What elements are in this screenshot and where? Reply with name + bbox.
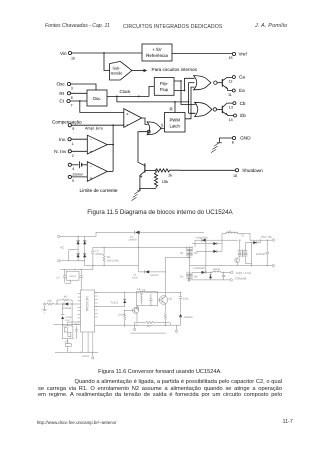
wire T2 taps bbox=[240, 240, 252, 263]
node Qbar junction bbox=[184, 90, 186, 92]
svg-text:Rt: Rt bbox=[59, 91, 64, 96]
wire primary bottom link bbox=[165, 257, 191, 258]
diode 5V rail bbox=[246, 240, 261, 244]
svg-text:COMUM: COMUM bbox=[235, 277, 247, 281]
snubber network box bbox=[136, 289, 157, 306]
or gate S input bbox=[147, 122, 161, 135]
oscillator box Osc bbox=[87, 90, 107, 106]
svg-text:470: 470 bbox=[147, 325, 152, 328]
svg-text:GND: GND bbox=[240, 136, 251, 141]
terminal Vin pin 15 bbox=[60, 51, 75, 61]
nor gate A bbox=[194, 76, 217, 90]
wire to shutdown terminal bbox=[180, 169, 235, 171]
wire common rail bbox=[190, 265, 272, 267]
wire Ct to osc box bbox=[70, 100, 87, 102]
svg-text:18k 1/2W: 18k 1/2W bbox=[107, 259, 119, 262]
svg-text:11: 11 bbox=[228, 93, 232, 97]
wire bridge mid bbox=[69, 250, 78, 261]
node compensation junction bbox=[112, 124, 114, 126]
pin stubs right bbox=[95, 293, 98, 318]
inductor L2 bbox=[212, 271, 230, 272]
wire emitter to resistor bottom bbox=[140, 188, 156, 190]
svg-text:2: 2 bbox=[72, 154, 74, 158]
svg-text:13: 13 bbox=[229, 105, 233, 109]
resistor 2k2 bbox=[118, 310, 126, 327]
diode bridge D leg1 bottom bbox=[77, 254, 80, 258]
enclosure bottom line bbox=[131, 332, 167, 334]
terminal comum bbox=[230, 279, 232, 281]
wire aux vertical right bbox=[251, 243, 253, 266]
wire clock line bbox=[107, 89, 149, 96]
divider box bbox=[62, 322, 80, 339]
regulator box +5V Referencia bbox=[142, 44, 172, 61]
pin stubs left bbox=[78, 294, 81, 322]
terminal snubber bbox=[137, 306, 139, 310]
svg-text:Clock: Clock bbox=[120, 89, 132, 94]
resistor R1 bbox=[103, 247, 119, 266]
diode 12V freewheel bbox=[209, 272, 212, 280]
wire Q3 collector bbox=[136, 306, 138, 323]
footer left bbox=[37, 421, 117, 425]
terminal pin 5 bbox=[68, 175, 74, 183]
wire clock lower branch bbox=[117, 96, 189, 102]
header left bbox=[45, 24, 110, 29]
wire arrow para circuitos internos bbox=[132, 67, 198, 72]
wire pin 5 input bbox=[71, 176, 87, 178]
svg-text:78L15: 78L15 bbox=[69, 275, 76, 278]
pwm latch box bbox=[165, 113, 186, 133]
wire inv input bbox=[71, 138, 87, 140]
svg-text:3: 3 bbox=[71, 87, 73, 91]
svg-text:N1: N1 bbox=[180, 252, 184, 255]
terminal Vref pin 16 bbox=[229, 52, 248, 60]
svg-text:100nF: 100nF bbox=[118, 313, 126, 316]
node common junctions bbox=[251, 265, 252, 266]
ground rail bottom bbox=[55, 351, 98, 353]
svg-text:Ca: Ca bbox=[239, 75, 245, 80]
terminal Cb pin 13 bbox=[229, 101, 246, 110]
svg-text:100uF: 100uF bbox=[95, 253, 103, 256]
regulator box 78L15 bbox=[65, 271, 79, 283]
wire latch bus to gate B bbox=[191, 112, 196, 114]
wire secondary rect 1 bbox=[192, 234, 222, 246]
svg-text:6: 6 bbox=[71, 96, 73, 100]
terminal AC bottom bbox=[58, 260, 60, 262]
wire Q2 emitter bbox=[164, 304, 166, 314]
inductor L1 bbox=[222, 230, 250, 240]
svg-text:1: 1 bbox=[72, 142, 74, 146]
transistor shutdown bbox=[140, 163, 156, 188]
diode 12V rect bbox=[193, 268, 221, 274]
terminal bottom bbox=[92, 352, 94, 359]
node base junction bbox=[155, 170, 157, 172]
ground below shutdown transistor bbox=[131, 189, 140, 201]
svg-text:10: 10 bbox=[233, 174, 237, 178]
wire blanking to gate A bbox=[189, 82, 195, 84]
wire flip-flop output Q bbox=[174, 81, 196, 105]
feedback vertical TL431 bbox=[111, 292, 127, 307]
svg-text:1N4007: 1N4007 bbox=[129, 239, 139, 242]
svg-text:Vref: Vref bbox=[239, 52, 248, 57]
wire blanking to gate B bbox=[189, 112, 196, 114]
resistor 27k below divider bbox=[64, 339, 71, 353]
node Vin junction bbox=[103, 52, 105, 54]
diode clamp 1N4936 bbox=[177, 314, 194, 325]
svg-text:+12V / 1.5A: +12V / 1.5A bbox=[235, 271, 251, 275]
wire non-inv input bbox=[71, 150, 87, 152]
svg-text:Cb: Cb bbox=[240, 101, 246, 106]
svg-text:100n: 100n bbox=[74, 323, 80, 326]
terminal pin 4 bbox=[68, 163, 74, 171]
header center bbox=[123, 25, 222, 30]
svg-text:Flip-: Flip- bbox=[160, 81, 169, 86]
op-amp current limit bbox=[87, 162, 107, 182]
svg-text:+: + bbox=[126, 111, 129, 116]
wire clock to flip-flop bbox=[149, 86, 154, 96]
wire aux supply rail bbox=[60, 265, 93, 270]
wire Q2 collector bbox=[164, 258, 166, 297]
wire comparator output to or gate bbox=[142, 118, 148, 124]
node Q junction bbox=[180, 80, 182, 82]
svg-text:7: 7 bbox=[71, 104, 73, 108]
node bridge top bbox=[77, 236, 78, 237]
wire resistor 470 row bbox=[134, 321, 171, 330]
wire amp outputs join vertical bbox=[112, 125, 114, 171]
terminal AC top bbox=[58, 235, 60, 237]
node error amp output junction bbox=[112, 144, 114, 146]
svg-text:Referência: Referência bbox=[146, 53, 168, 58]
svg-text:1k: 1k bbox=[168, 173, 172, 178]
svg-text:Q2: Q2 bbox=[169, 298, 173, 301]
wire secondary rect 2 bbox=[196, 244, 222, 253]
wire reference box to Vref bbox=[172, 53, 232, 55]
resistor 1k bbox=[156, 169, 181, 178]
svg-text:Limite de corrente: Limite de corrente bbox=[80, 188, 118, 194]
wire T1 lower winding links bbox=[187, 272, 194, 280]
wire HV vertical bbox=[137, 232, 139, 272]
capacitor C1 bbox=[91, 247, 103, 265]
svg-text:5: 5 bbox=[72, 179, 74, 183]
terminal +5V bbox=[272, 239, 274, 241]
terminal Ca pin 12 bbox=[228, 75, 245, 84]
wire bottom rail primary bbox=[95, 324, 177, 326]
pin bottom leads bbox=[82, 332, 93, 352]
svg-text:200mV: 200mV bbox=[72, 173, 83, 177]
wire bridge legs bbox=[78, 236, 85, 260]
svg-text:AC: AC bbox=[60, 246, 65, 250]
wire IC to TL431 bbox=[95, 306, 125, 308]
wire flip-flop output Qbar bbox=[174, 78, 195, 90]
diode demag UF5404 bbox=[132, 270, 166, 279]
svg-text:Osc.: Osc. bbox=[57, 82, 66, 87]
terminal Inv pin 1 bbox=[59, 137, 74, 146]
svg-text:+5V / 3A: +5V / 3A bbox=[260, 235, 272, 239]
svg-text:Ct: Ct bbox=[59, 99, 64, 104]
svg-text:C2: C2 bbox=[56, 277, 60, 280]
wire or gate to latch S bbox=[160, 122, 164, 128]
svg-text:100uF: 100uF bbox=[82, 355, 90, 358]
nor gate B bbox=[195, 102, 217, 116]
wire pin 4 to offset battery bbox=[71, 164, 78, 166]
svg-text:Vin: Vin bbox=[60, 51, 67, 56]
svg-text:Osc.: Osc. bbox=[93, 96, 102, 101]
terminal Compensacao pin 9 bbox=[52, 119, 82, 131]
transformer T1 core bbox=[189, 246, 191, 281]
wire Vin to reference box bbox=[72, 52, 142, 54]
resistor emitter bbox=[164, 313, 166, 326]
footer right bbox=[283, 420, 293, 425]
wire T1 bottom to Q2 bbox=[187, 278, 189, 280]
svg-text:4: 4 bbox=[72, 167, 74, 171]
diode bridge D leg2 bottom bbox=[83, 254, 86, 258]
svg-text:Inv.: Inv. bbox=[59, 137, 66, 142]
capacitor 220uF aux bbox=[56, 303, 73, 324]
svg-text:UF5404: UF5404 bbox=[150, 274, 159, 277]
wire DC- rail bbox=[85, 261, 139, 266]
wire to D1 rail bbox=[96, 232, 134, 236]
terminal GND pin 8 bbox=[232, 136, 251, 145]
capacitor 1000uF output bbox=[256, 240, 269, 265]
wire oscillator output pin 3 bbox=[71, 84, 96, 90]
svg-text:N2: N2 bbox=[180, 276, 184, 279]
svg-text:14: 14 bbox=[229, 118, 233, 122]
capacitor 1uF bbox=[137, 288, 143, 294]
wire comum 12V bbox=[190, 279, 230, 281]
svg-text:UC1524A: UC1524A bbox=[85, 297, 89, 312]
svg-text:1N4936: 1N4936 bbox=[184, 316, 194, 319]
svg-text:10nF: 10nF bbox=[183, 297, 189, 300]
svg-text:27k: 27k bbox=[64, 341, 69, 344]
svg-text:S: S bbox=[161, 122, 164, 127]
svg-text:-: - bbox=[90, 138, 92, 143]
diode bridge D leg1 top bbox=[77, 241, 80, 245]
svg-text:1uF: 1uF bbox=[137, 288, 142, 291]
svg-text:tensão: tensão bbox=[111, 70, 123, 75]
svg-text:8: 8 bbox=[232, 141, 234, 145]
terminal common 5V bbox=[272, 264, 274, 266]
wire demag rail VD(SNB) bbox=[195, 236, 238, 247]
diode bridge D leg2 top bbox=[83, 241, 86, 245]
transistor Q2 power bbox=[158, 296, 173, 305]
svg-text:Compensação: Compensação bbox=[52, 119, 82, 124]
node 5V junctions bbox=[260, 240, 261, 241]
svg-text:N. Inv: N. Inv bbox=[54, 149, 67, 154]
terminal Rt pin 6 bbox=[59, 91, 72, 100]
battery 200mV offset bbox=[72, 161, 87, 176]
terminal Ea pin 11 bbox=[228, 88, 245, 97]
wire VD(SNB) riser bbox=[205, 240, 206, 274]
svg-text:3,3nF: 3,3nF bbox=[132, 277, 139, 280]
svg-text:Flop: Flop bbox=[160, 87, 169, 92]
wire latch output bus bbox=[185, 87, 195, 119]
svg-text:PWM: PWM bbox=[169, 117, 180, 122]
wire T1 top taps bbox=[187, 247, 193, 249]
transformer T2 bbox=[238, 234, 247, 257]
svg-text:Shutdown: Shutdown bbox=[242, 168, 263, 173]
node blanking junction bbox=[188, 101, 190, 103]
terminal Shutdown pin 10 bbox=[233, 168, 263, 178]
svg-text:12: 12 bbox=[228, 79, 232, 83]
svg-text:+VD(SNB): +VD(SNB) bbox=[193, 267, 205, 270]
svg-text:+: + bbox=[90, 149, 93, 154]
svg-text:9: 9 bbox=[72, 127, 74, 131]
node clock junction 2 bbox=[138, 96, 140, 98]
comparator PWM bbox=[124, 109, 142, 128]
op-amp error amplifier bbox=[87, 135, 107, 154]
wire Ct ramp to comparator bbox=[80, 101, 124, 112]
wire error amp output bbox=[107, 144, 113, 146]
resistor 1k8 bbox=[46, 300, 57, 306]
transformer T1 winding N1 bbox=[186, 249, 192, 256]
ground symbol pin 8 bbox=[211, 143, 222, 153]
capacitor 12V output bbox=[222, 272, 225, 280]
svg-text:25V: 25V bbox=[65, 319, 70, 322]
node clock junction 1 bbox=[116, 96, 118, 98]
wire AC top bbox=[60, 235, 96, 237]
resistor 10k bbox=[154, 171, 168, 188]
svg-text:16: 16 bbox=[229, 56, 233, 60]
wire Vcc rail bbox=[95, 292, 181, 294]
diode aux 1N4148 bbox=[57, 302, 81, 310]
svg-text:Latch: Latch bbox=[169, 124, 180, 129]
svg-text:R: R bbox=[170, 107, 173, 112]
wire Rt to osc box bbox=[71, 92, 87, 94]
svg-text:1k8: 1k8 bbox=[47, 300, 52, 303]
svg-text:-: - bbox=[90, 165, 92, 170]
wire +5V rail bbox=[250, 239, 272, 241]
node emitter junction bbox=[139, 188, 141, 190]
caption figure 11.6 bbox=[0, 370, 320, 376]
capacitor Vin decouple bbox=[80, 269, 83, 290]
terminal Osc pin 3 bbox=[57, 82, 73, 91]
transformer T1 winding N4 bbox=[186, 273, 192, 278]
snubber vertical 10nF bbox=[179, 292, 189, 313]
transistor T2 driver bbox=[235, 258, 240, 266]
IC U1 UC1524A bbox=[81, 290, 95, 332]
node Ct ramp junction bbox=[79, 100, 81, 102]
header right bbox=[255, 24, 287, 29]
svg-text:4k7: 4k7 bbox=[64, 296, 69, 299]
wire D1 to snubber rail bbox=[140, 231, 204, 233]
flip-flop box bbox=[154, 78, 174, 96]
diode D1 bbox=[129, 231, 140, 242]
svg-text:1N4148: 1N4148 bbox=[62, 307, 72, 310]
svg-text:N3: N3 bbox=[194, 252, 198, 255]
paragraph bbox=[38, 379, 282, 399]
terminal Eb pin 14 bbox=[229, 113, 247, 122]
wire aux ground rail bbox=[53, 304, 80, 325]
wire GND pin bbox=[219, 138, 232, 143]
transistor output A bbox=[217, 77, 232, 90]
node bottom rail bbox=[124, 325, 125, 326]
node latch bus junction bbox=[190, 112, 192, 114]
wire latch reset R bbox=[170, 102, 176, 113]
terminal NInv pin 2 bbox=[54, 149, 74, 158]
svg-text:N4: N4 bbox=[194, 276, 198, 279]
svg-text:C8: C8 bbox=[142, 289, 146, 292]
svg-text:Ea: Ea bbox=[239, 88, 245, 93]
wire clock blanking bus bbox=[188, 83, 190, 114]
svg-text:10k: 10k bbox=[162, 179, 168, 184]
resistor 4k7 bbox=[57, 296, 72, 304]
svg-text:Ampl. Erro: Ampl. Erro bbox=[85, 127, 103, 131]
transistor output B bbox=[217, 103, 234, 115]
svg-text:Eb: Eb bbox=[240, 113, 246, 118]
svg-text:+ 5V: + 5V bbox=[152, 47, 161, 52]
capacitor C2 startup bbox=[56, 269, 66, 282]
terminal aux input bbox=[42, 303, 46, 312]
node HV rail bbox=[138, 247, 139, 248]
terminal +12V bbox=[231, 271, 233, 273]
node DC- junctions bbox=[92, 265, 93, 266]
wire compensation line bbox=[71, 123, 123, 126]
svg-text:1000uF: 1000uF bbox=[256, 253, 265, 256]
wire current limit output bbox=[107, 170, 113, 172]
wire HV+ rail bbox=[93, 246, 192, 248]
svg-text:T2: T2 bbox=[241, 234, 245, 237]
wire AC bottom bbox=[60, 260, 85, 262]
node C1 top bbox=[103, 247, 104, 248]
svg-text:15: 15 bbox=[71, 56, 75, 60]
caption figure 11.5 bbox=[0, 210, 320, 216]
transistor Q3 bbox=[124, 307, 139, 313]
svg-text:TL431: TL431 bbox=[111, 301, 119, 304]
svg-text:+VD(SNB): +VD(SNB) bbox=[195, 236, 207, 239]
comparator subtensao (undervoltage lockout) bbox=[110, 61, 132, 80]
svg-text:SB540: SB540 bbox=[213, 268, 221, 271]
wire shutdown collector to or input bbox=[138, 132, 147, 166]
terminal emitter sense bbox=[175, 325, 177, 332]
terminal Ct pin 7 bbox=[59, 99, 72, 108]
svg-text:+: + bbox=[90, 176, 93, 181]
capacitor C9 bbox=[74, 323, 80, 339]
node clock lower junction bbox=[174, 101, 176, 103]
wire Vin down to subtensao bbox=[104, 53, 110, 71]
svg-text:Para circuitos internos: Para circuitos internos bbox=[152, 67, 198, 72]
